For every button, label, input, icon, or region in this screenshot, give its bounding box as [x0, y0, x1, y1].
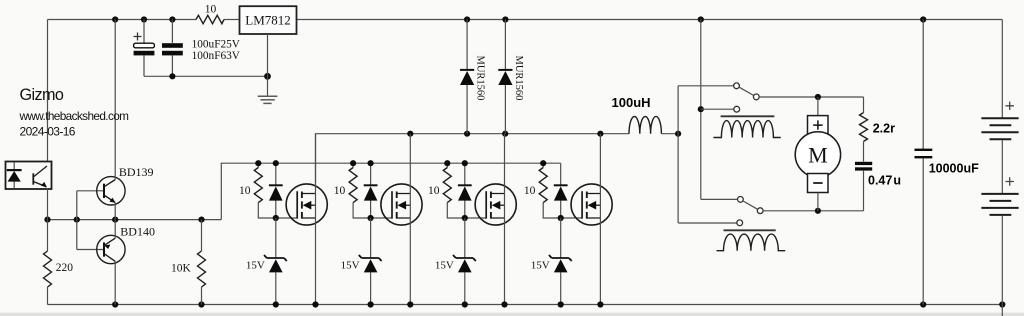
wire: top rail right segment (LM7812 output to far right) [296, 19, 1002, 21]
wire: 220 bottom lead [47, 287, 49, 305]
wire: lower switch throw 2 lead (from inductor node) [678, 222, 737, 224]
wire: inductor output segment [661, 133, 678, 135]
svg-text:100uH: 100uH [612, 95, 651, 110]
wire: LM7812 ground pin drop [267, 34, 269, 96]
node: motor bottom node junction [815, 208, 821, 214]
relay coil RL2 (lower) winding [717, 234, 786, 251]
wire: BD140 emitter up to driver line [114, 220, 116, 239]
svg-text:220: 220 [56, 262, 74, 274]
svg-text:10: 10 [205, 3, 217, 15]
label: + (battery 1) [1006, 102, 1014, 110]
relay coil RL2 (lower) bar [724, 229, 776, 231]
capacitor 100uF25V plus sign [134, 33, 142, 41]
wire: battery interconnect [1001, 140, 1003, 193]
wire: inductor node vertical (to both relay throws) [677, 86, 679, 223]
capacitor C3 0.47u plates [855, 162, 872, 165]
capacitor 100uF25V bottom lead [143, 55, 145, 76]
svg-text:10000uF: 10000uF [929, 162, 979, 176]
wire: snubber bottom lead [863, 171, 865, 211]
optocoupler phototransistor base bar [32, 173, 34, 184]
switch S1 upper: throw terminal circles [734, 83, 740, 89]
relay coil RL1 (upper) bar [721, 115, 775, 117]
diode D1 MUR1560 lead [466, 20, 468, 134]
battery B2 plates [981, 194, 1018, 215]
capacitor 100uF25V electrolytic: top lead [143, 20, 145, 44]
wire: battery negative lead down past bottom rail [1001, 216, 1003, 316]
scan shadow along bottom edge [0, 313, 1024, 316]
wire: drain bus from MOSFET1 to inductor [316, 134, 630, 183]
optocoupler LED leads [13, 162, 15, 189]
svg-text:MUR1560: MUR1560 [513, 56, 524, 101]
wire: top rail between resistor and LM7812 [224, 19, 240, 21]
switch S2 lower: common terminal circle [757, 208, 763, 214]
wire: 10K bottom lead [201, 287, 203, 305]
wire: BD140 base lead [77, 249, 104, 251]
switch S1 upper: blade [739, 87, 754, 95]
wire: top rail left segment (battery+ to input resistor) [48, 19, 197, 21]
capacitor C4 10000uF plates [915, 149, 933, 151]
wire: motor top lead [817, 97, 819, 116]
wire: 10000uF top lead [922, 20, 924, 150]
wire: BD139 base lead [77, 190, 104, 192]
resistor R3 10K [198, 251, 206, 287]
wire: gate drive bus riser and horizontal run [221, 163, 560, 219]
wire: BD139 emitter down to driver line [114, 203, 116, 220]
resistor R4 2.2r [860, 113, 868, 142]
resistor R2 220 [44, 251, 52, 287]
wire: battery feed vertical (top rail to relay throws) [700, 20, 702, 200]
capacitor 100nF63V top plate [162, 43, 183, 48]
capacitor 100uF25V top plate (outlined) [134, 43, 155, 48]
inductor L1 100uH [629, 116, 661, 133]
transistor Q1 BD139 circle [97, 177, 125, 205]
svg-text:2.2r: 2.2r [873, 122, 895, 136]
wire: lower switch throw 1 lead (from battery feed) [701, 198, 738, 200]
diode D1 MUR1560 symbol (cathode bar + triangle) [460, 69, 474, 71]
node: junction dots on bottom rail [112, 301, 1005, 307]
svg-text:100nF63V: 100nF63V [192, 50, 241, 62]
svg-text:MUR1560: MUR1560 [475, 56, 486, 101]
motor M1 circle [795, 132, 840, 177]
wire: snubber top lead [863, 97, 865, 113]
svg-text:M: M [808, 143, 828, 168]
motor M1 plus terminal box [808, 116, 829, 135]
svg-text:www.thebackshed.com: www.thebackshed.com [19, 109, 130, 123]
optocoupler LED (cathode bar + filled triangle) [7, 169, 22, 171]
optocoupler phototransistor collector and emitter [33, 166, 47, 187]
wire: BD140 collector down to bottom rail [114, 261, 116, 304]
transistor Q1 BD139 base bar [103, 184, 105, 198]
transistor Q2 BD140 emitter and collector [104, 238, 115, 261]
diode D2 MUR1560 symbol [498, 69, 512, 71]
node: junction on battery feed at upper switch branch [698, 106, 704, 112]
relay coil RL1 (upper) winding [713, 121, 780, 138]
ground symbol under LM7812 [258, 96, 278, 103]
wire: 10000uF bottom lead [922, 158, 924, 304]
capacitor 100uF25V bottom plate (filled) [134, 51, 155, 56]
svg-text:LM7812: LM7812 [245, 13, 291, 28]
switch S2 lower: blade [743, 201, 758, 209]
node: junction dot 100nF bottom [169, 73, 175, 79]
MOSFET cell 3 (gate resistor 10, gate diode, zener 15V, MOSFET) [428, 134, 516, 308]
svg-text:0.47u: 0.47u [868, 173, 901, 187]
wire: upper switch throw 1 lead [678, 85, 734, 87]
MOSFET cell 2 (gate resistor 10, gate diode, zener 15V, MOSFET) [334, 134, 422, 308]
svg-text:100uF25V: 100uF25V [192, 38, 241, 50]
label: + (motor) [813, 120, 822, 129]
svg-text:Gizmo: Gizmo [20, 86, 64, 104]
wire: upper switch throw 2 lead [701, 108, 734, 110]
switch S2 lower: throw terminal circles [738, 197, 744, 203]
svg-text:BD139: BD139 [119, 165, 154, 179]
wire: 10K top lead [201, 220, 203, 251]
wire: opto emitter down to driver line and on to 220 [47, 189, 49, 251]
wire: snubber middle lead [863, 141, 865, 161]
resistor 10 (input series resistor, horizontal) [196, 15, 224, 23]
MOSFET cell 1 (gate resistor 10, gate diode, zener 15V, MOSFET) [239, 134, 327, 308]
node: junction dot regulator ground tap [264, 73, 271, 80]
svg-text:BD140: BD140 [120, 224, 155, 238]
node: motor top node junction [815, 94, 821, 100]
optocoupler U2 box [6, 162, 52, 190]
label: - (motor) [813, 182, 822, 184]
label: + (battery 2) [1006, 177, 1014, 185]
wire: capacitor ground return line to regulator ground [144, 75, 268, 77]
MOSFET cell 4 (gate resistor 10, gate diode, zener 15V, MOSFET) [524, 134, 612, 308]
wire: motor bottom lead [817, 193, 819, 211]
capacitor 100nF63V top lead [171, 20, 173, 44]
node: gate diode top junctions on gate bus (cells 1-3) [273, 160, 468, 166]
transistor Q2 BD140 base bar [103, 242, 105, 256]
capacitor 100nF63V bottom lead [171, 55, 173, 76]
svg-text:10K: 10K [171, 263, 192, 275]
wire: left vertical rail from top rail down to optocoupler [47, 20, 49, 162]
regulator U1 LM7812 box [240, 6, 297, 34]
node: junction dots on driver output line [44, 217, 204, 223]
wire: battery positive drop at far right [1001, 20, 1003, 119]
wire: bottom rail [48, 304, 1003, 306]
capacitor 100nF63V bottom plate [162, 51, 183, 56]
wire: BD139 collector up to top rail [114, 20, 116, 180]
diode D2 MUR1560 lead [504, 20, 506, 134]
switch S1 upper: common terminal circle [753, 94, 759, 100]
transistor Q1 BD139 collector and emitter [104, 180, 115, 203]
transistor Q2 BD140 circle [97, 235, 125, 263]
svg-text:2024-03-16: 2024-03-16 [20, 124, 76, 138]
node: junction dots on drain bus [407, 131, 681, 137]
wire: lower switch common to motor- and on to 0.47u [763, 210, 863, 212]
battery B1 plates [981, 118, 1018, 139]
node: junction dots on top rail [112, 16, 926, 22]
wire: base tie line between BD139 and BD140 [76, 191, 78, 250]
wire: upper switch common to motor+ and on to 2.2r [759, 96, 863, 98]
motor M1 minus terminal box [808, 174, 829, 193]
wire: driver output line (emitters to gate bus riser) [48, 219, 222, 221]
